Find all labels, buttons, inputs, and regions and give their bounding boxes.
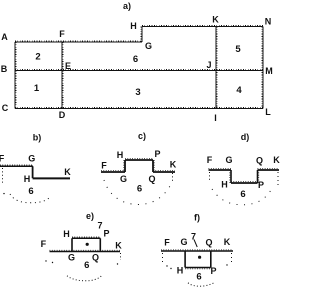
dotted arc (d) (212, 189, 271, 205)
stray dot right (e) (117, 263, 118, 264)
svg-text:d): d) (241, 132, 250, 142)
wire C-L bottom horizontal (15, 108, 263, 109)
wire K-I vertical (216, 27, 217, 109)
dotted right below line (f) (231, 253, 233, 262)
svg-text:7: 7 (97, 221, 102, 231)
svg-text:E: E (65, 61, 71, 71)
svg-text:F: F (164, 237, 170, 247)
svg-text:G: G (120, 174, 127, 184)
dotted right below line (e) (120, 253, 122, 260)
dotted arc (c) (104, 180, 171, 205)
svg-text:B: B (1, 64, 8, 74)
svg-text:e): e) (86, 211, 94, 221)
svg-text:I: I (214, 113, 217, 123)
rotation centre dot (e) (86, 243, 89, 246)
svg-text:D: D (59, 110, 66, 120)
svg-text:P: P (103, 229, 109, 239)
wire G-H vertical (b) (32, 166, 34, 178)
svg-text:7: 7 (191, 232, 196, 242)
svg-text:F: F (207, 155, 213, 165)
dotted edge below F (d) (209, 172, 211, 181)
wire H-G step vertical (141, 27, 142, 43)
wire F-K main line (e) (50, 250, 121, 251)
dotted left edge (b) (2, 168, 4, 184)
svg-text:6: 6 (137, 184, 142, 195)
svg-text:6: 6 (84, 260, 89, 271)
rect right edge (e) (99, 238, 101, 251)
svg-text:Q: Q (148, 174, 155, 184)
wire B-M middle horizontal (15, 70, 263, 71)
svg-text:H: H (117, 150, 124, 160)
dotted left below line (f) (162, 253, 164, 263)
wire F-G (c) (101, 171, 125, 172)
svg-text:H: H (63, 229, 70, 239)
wire Q-K (d) (258, 169, 280, 170)
dotted arc (e) (67, 276, 102, 281)
wire N-L right vertical (262, 27, 263, 109)
svg-text:6: 6 (196, 272, 201, 283)
svg-text:M: M (265, 66, 273, 76)
wire G-H vertical (d) (230, 170, 231, 183)
svg-text:Q: Q (92, 252, 99, 262)
svg-text:c): c) (138, 131, 146, 141)
wire A-G top-left horizontal (15, 41, 142, 42)
wire H-N top-right horizontal (142, 26, 263, 27)
wire H-P dotted bottom (d) (231, 182, 258, 183)
svg-text:P: P (154, 149, 160, 159)
svg-text:H: H (177, 266, 184, 276)
wire F-D vertical (62, 42, 63, 109)
svg-text:J: J (206, 60, 211, 70)
svg-text:F: F (41, 239, 47, 249)
svg-text:P: P (258, 180, 264, 190)
dotted arc path (b) (10, 194, 51, 203)
stray dot (b) (3, 193, 4, 194)
svg-text:N: N (265, 17, 272, 27)
svg-text:f): f) (194, 213, 200, 223)
dotted edge below K (c) (172, 173, 174, 181)
svg-text:K: K (273, 155, 280, 165)
rect top dotted H-P (e) (72, 237, 100, 238)
svg-text:K: K (170, 160, 177, 170)
stray dot left (f) (166, 265, 167, 266)
wire F-K main line (f) (161, 250, 233, 251)
rect left edge (f) (184, 251, 186, 268)
svg-text:P: P (210, 266, 216, 276)
svg-text:F: F (101, 160, 107, 170)
pointer 7 to dot (f) (194, 240, 197, 248)
svg-text:6: 6 (240, 189, 245, 200)
svg-text:a): a) (123, 1, 131, 11)
svg-text:K: K (212, 15, 219, 25)
svg-text:F: F (59, 29, 65, 39)
rect bottom dotted H-P (f) (185, 268, 211, 269)
svg-text:K: K (224, 237, 231, 247)
svg-text:A: A (1, 32, 8, 42)
wire F-G (b) (0, 165, 33, 166)
svg-text:H: H (130, 21, 137, 31)
svg-text:G: G (28, 154, 35, 164)
svg-text:H: H (24, 174, 31, 184)
wire G-H vertical (c) (124, 160, 125, 172)
svg-text:G: G (68, 253, 75, 263)
dotted edge below K (d) (277, 172, 279, 185)
dotted arc (f) (188, 283, 214, 286)
svg-text:H: H (221, 180, 228, 190)
stray dot left (e) (45, 260, 46, 261)
svg-text:3: 3 (135, 87, 140, 98)
svg-text:K: K (64, 167, 71, 177)
stray dot left2 (f) (170, 268, 171, 269)
rect left edge (e) (71, 238, 73, 251)
svg-text:G: G (180, 237, 187, 247)
svg-text:6: 6 (133, 54, 138, 65)
svg-text:C: C (2, 103, 9, 113)
stray dot right (f) (226, 264, 227, 265)
rotation centre dot (f) (198, 256, 201, 259)
svg-text:Q: Q (205, 238, 212, 248)
svg-text:L: L (265, 107, 271, 117)
wire F-G (d) (209, 169, 232, 170)
wire H-K (b) (33, 177, 70, 179)
wire A-C left vertical (15, 42, 16, 109)
svg-text:4: 4 (236, 85, 242, 96)
svg-text:2: 2 (35, 52, 40, 63)
wire Q-K (c) (153, 171, 175, 172)
svg-text:F: F (0, 154, 5, 164)
wire P-Q vertical (d) (258, 170, 259, 183)
svg-text:Q: Q (256, 156, 263, 166)
svg-text:K: K (115, 241, 122, 251)
svg-text:G: G (225, 155, 232, 165)
svg-text:b): b) (33, 133, 42, 143)
svg-text:5: 5 (235, 44, 241, 55)
svg-text:1: 1 (34, 83, 40, 94)
rect right edge (f) (210, 251, 212, 268)
svg-text:G: G (145, 41, 152, 51)
wire P-Q vertical (c) (153, 160, 154, 172)
stray dot left2 (e) (52, 262, 53, 263)
svg-text:6: 6 (28, 186, 33, 197)
wire H-P dotted top (c) (125, 159, 153, 160)
